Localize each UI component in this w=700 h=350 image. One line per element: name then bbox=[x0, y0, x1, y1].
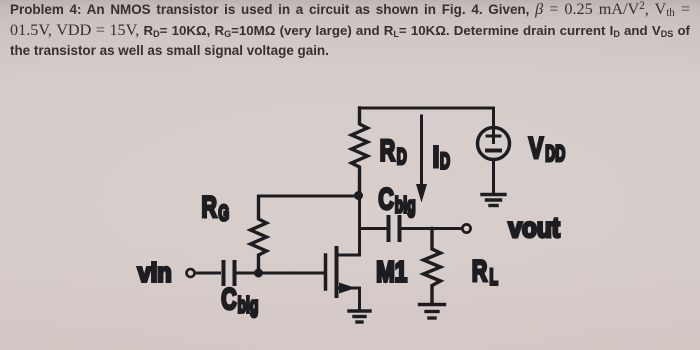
svg-text:G: G bbox=[218, 200, 229, 225]
resistor RL bbox=[424, 229, 441, 303]
terminal vin (open circle) bbox=[187, 269, 195, 277]
wire: vin to Cbig input bbox=[196, 272, 220, 275]
current arrow ID bbox=[416, 116, 427, 203]
svg-text:V: V bbox=[529, 131, 544, 165]
wire: gate wire from Cbig to M1 gate bbox=[237, 272, 325, 275]
ground under M1 source bbox=[349, 311, 370, 322]
svg-text:L: L bbox=[490, 264, 498, 289]
svg-text:C: C bbox=[378, 181, 394, 216]
label Cbig (input) bbox=[221, 281, 258, 317]
resistor RG bbox=[251, 197, 267, 273]
wire: VDD to ground bbox=[492, 160, 495, 193]
wire: output tap from drain to Cbig bbox=[360, 227, 387, 230]
label RG bbox=[202, 189, 230, 225]
svg-text:R: R bbox=[472, 253, 488, 288]
svg-text:D: D bbox=[397, 144, 407, 169]
wire: source of M1 to ground bbox=[339, 288, 360, 309]
svg-text:R: R bbox=[202, 189, 218, 224]
svg-text:big: big bbox=[395, 192, 416, 217]
source VDD wire top bbox=[492, 108, 495, 128]
label RL bbox=[472, 253, 498, 289]
svg-text:C: C bbox=[221, 281, 237, 316]
label Cbig (output) bbox=[378, 181, 415, 217]
transistor M1 bbox=[326, 248, 357, 296]
node: drain node junction dot bbox=[354, 191, 363, 200]
svg-text:big: big bbox=[238, 292, 259, 317]
svg-text:DD: DD bbox=[545, 140, 565, 165]
resistor RD bbox=[352, 108, 368, 196]
svg-text:vout: vout bbox=[508, 211, 560, 243]
ground under VDD bbox=[482, 195, 505, 206]
wire: Cbig to vout terminal bbox=[402, 227, 462, 230]
wire: top supply rail bbox=[360, 107, 494, 110]
label VDD bbox=[529, 131, 566, 166]
wire: drain vertical wire bbox=[337, 196, 360, 255]
svg-text:I: I bbox=[433, 139, 440, 173]
capacitor Cbig (input coupling) bbox=[224, 262, 235, 284]
source VDD (battery circle) bbox=[478, 128, 510, 160]
wire: feedback wire from RG top to drain node bbox=[259, 196, 359, 197]
label ID bbox=[433, 139, 450, 173]
ground under RL bbox=[420, 305, 445, 319]
svg-text:D: D bbox=[440, 148, 450, 173]
capacitor Cbig (output coupling) bbox=[389, 217, 400, 240]
terminal vout (open circle) bbox=[462, 224, 470, 232]
svg-text:vin: vin bbox=[138, 259, 172, 287]
svg-text:M1: M1 bbox=[376, 257, 407, 288]
svg-text:R: R bbox=[380, 133, 396, 168]
node: gate node junction dot bbox=[254, 269, 263, 278]
